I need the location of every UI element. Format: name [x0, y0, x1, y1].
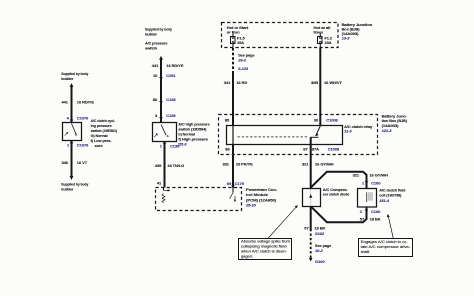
note: absorbs voltage spike [239, 239, 292, 260]
svg-text:4: 4 [67, 115, 70, 120]
svg-text:times: times [314, 30, 324, 35]
svg-text:sor clutch diode: sor clutch diode [323, 192, 350, 197]
A/C compressor clutch diode [303, 187, 350, 207]
svg-text:16 RD: 16 RD [236, 80, 247, 85]
connector C175 pin 69 [227, 181, 245, 188]
svg-text:C100: C100 [371, 181, 381, 186]
svg-text:87: 87 [303, 146, 308, 151]
connector C139 pin 1 with page ref 151-3 [160, 141, 187, 149]
wire fuse F1.5 dashed off-page segment, see page 26-2 / 6-123 [233, 48, 255, 72]
A/C clutch field coil [358, 188, 406, 208]
svg-text:16 GY/WH: 16 GY/WH [315, 161, 334, 166]
wire circuit 346 16 VT (column 1 bottom) [62, 141, 88, 181]
supplied by body builder (column 2 top) [145, 26, 173, 60]
svg-text:C145: C145 [166, 97, 176, 102]
svg-text:16 WH/VT: 16 WH/VT [324, 80, 342, 85]
svg-text:331: 331 [223, 162, 230, 167]
connector C291 pin 10 [153, 73, 176, 80]
svg-text:121-3: 121-3 [382, 128, 393, 133]
svg-text:18 BK: 18 BK [370, 217, 381, 222]
powertrain control module PCM (dashed) [156, 187, 278, 211]
svg-text:441: 441 [62, 100, 69, 105]
svg-text:16 RD/YE: 16 RD/YE [77, 100, 95, 105]
svg-text:16 GY/WH: 16 GY/WH [369, 172, 388, 177]
svg-text:C1070: C1070 [77, 115, 89, 120]
note: engages A/C clutch [359, 239, 413, 257]
relay switch blade and contacts 87 / 87A [310, 126, 320, 145]
wire fuse F1.2 to relay pin 30, circuit 30B 16 WH/VT [311, 48, 342, 126]
svg-text:341: 341 [224, 80, 231, 85]
svg-text:30B: 30B [311, 80, 318, 85]
svg-text:16 RD/YE: 16 RD/YE [166, 63, 184, 68]
connector C1070 pin 1 [67, 141, 89, 148]
svg-text:sure: sure [95, 143, 104, 148]
wire circuit 341 16 RD to relay pin 85 [224, 72, 248, 126]
svg-text:18 BK: 18 BK [314, 225, 325, 230]
svg-text:439: 439 [155, 163, 162, 168]
svg-text:16 VT: 16 VT [77, 160, 88, 165]
svg-text:15A: 15A [237, 40, 244, 45]
svg-text:gaged.: gaged. [241, 254, 253, 259]
svg-text:11-3: 11-3 [344, 128, 352, 133]
svg-text:10-2: 10-2 [315, 248, 324, 253]
svg-text:321: 321 [302, 161, 309, 166]
connector C1070 pin 4 [67, 115, 89, 122]
relay outline [227, 124, 374, 145]
wire circuit 439 18 TN/LG [155, 141, 184, 188]
svg-text:321: 321 [353, 172, 360, 177]
svg-text:86: 86 [225, 146, 230, 151]
supplied by body builder (column 1 bottom) [61, 181, 89, 191]
svg-text:G: G [75, 133, 78, 137]
PCM internal: pin 41 input arrow and sense element [162, 188, 170, 203]
svg-text:f) High pressure: f) High pressure [178, 136, 208, 141]
svg-text:C139: C139 [166, 113, 176, 118]
wire circuit 441 16 RD/YE (column 2) [152, 58, 184, 123]
svg-text:C100: C100 [371, 209, 381, 214]
svg-text:18 TN/LG: 18 TN/LG [167, 163, 184, 168]
A/C high pressure switch [153, 121, 211, 141]
svg-text:1: 1 [362, 181, 365, 186]
svg-text:C175: C175 [235, 181, 245, 186]
relay pin labels bottom: 86, 87, 87A, C1008 [225, 146, 340, 151]
svg-text:shaft.: shaft. [361, 249, 370, 254]
svg-text:1: 1 [67, 143, 70, 148]
relay pin labels top: 85, 30, C1008 [225, 118, 339, 123]
wire dashed to ground G100, see page 10-2 [309, 234, 332, 265]
svg-text:15A: 15A [324, 40, 331, 45]
svg-text:6-123: 6-123 [238, 66, 249, 71]
wire circuit 441 16 RD/YE (column 1) [62, 86, 95, 123]
svg-text:G100: G100 [315, 259, 325, 264]
svg-text:2: 2 [360, 209, 363, 214]
relay coil [232, 126, 234, 145]
wire relay 87 down, circuit 321 16 GY/WH [302, 144, 334, 189]
svg-text:3: 3 [155, 113, 158, 118]
svg-text:C1008: C1008 [328, 146, 340, 151]
connector C100 pin 1 [362, 181, 381, 186]
svg-text:26-2: 26-2 [237, 58, 247, 63]
svg-text:S102: S102 [315, 231, 325, 236]
svg-text:13-3: 13-3 [342, 36, 351, 41]
svg-text:switch: switch [145, 45, 158, 50]
A/C clutch relay (battery junction box, dashed) [219, 113, 408, 154]
svg-text:b: b [167, 134, 169, 138]
svg-text:builder: builder [145, 31, 157, 36]
supplied by body builder (column 1 top) [61, 71, 89, 87]
svg-text:441: 441 [152, 63, 159, 68]
svg-text:C291: C291 [166, 73, 176, 78]
svg-text:coil (19D798): coil (19D798) [379, 193, 402, 198]
relay link (dashed) [238, 136, 309, 138]
svg-text:builder: builder [61, 186, 73, 191]
svg-text:57: 57 [304, 225, 309, 230]
svg-text:87A: 87A [312, 146, 319, 151]
svg-text:151-3: 151-3 [178, 143, 187, 147]
svg-text:C1008: C1008 [326, 118, 338, 123]
connector C139 pin 3 [155, 113, 176, 120]
svg-text:See page: See page [238, 52, 255, 57]
fuse F1.2 15A [314, 25, 333, 48]
wire branch to field coil top, circuit 321 16 GY/WH [311, 172, 388, 189]
svg-text:25-10: 25-10 [245, 203, 257, 208]
svg-text:20 PK/YE: 20 PK/YE [236, 162, 253, 167]
svg-text:10: 10 [153, 73, 158, 78]
svg-text:1: 1 [160, 143, 163, 148]
svg-text:85: 85 [225, 118, 230, 123]
note arrow to diode [268, 205, 298, 238]
svg-text:30: 30 [314, 118, 319, 123]
fuse F1.5 15A [227, 25, 249, 48]
svg-text:builder: builder [61, 76, 73, 81]
note arrow to field coil [387, 214, 393, 238]
connector C145 pin 80 [153, 97, 177, 104]
svg-text:151-4: 151-4 [379, 198, 390, 203]
svg-text:C1070: C1070 [77, 143, 89, 148]
svg-text:41: 41 [157, 180, 162, 185]
wire ground path, circuit 57 18 BK, splice S102 [304, 225, 325, 236]
svg-text:80: 80 [153, 97, 158, 102]
svg-text:346: 346 [62, 160, 69, 165]
wire diode path down and to field coil bottom, circuit 57 18 BK [311, 206, 381, 231]
connector C100 pin 2 [360, 208, 381, 214]
wire relay 86 to PCM, circuit 331 20 PK/YE [223, 144, 254, 188]
A/C clutch cycling pressure switch [63, 118, 118, 148]
PCM internal: pin 69 driver switch [230, 188, 236, 203]
battery junction box B1 (top, dashed) [222, 22, 373, 48]
